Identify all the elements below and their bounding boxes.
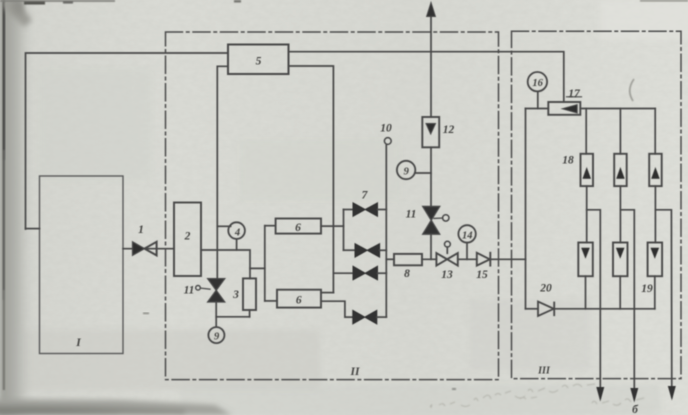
- svg-text:19: 19: [641, 283, 653, 295]
- svg-text:8: 8: [404, 268, 410, 280]
- svg-text:11: 11: [184, 285, 195, 297]
- svg-text:18: 18: [562, 155, 574, 167]
- svg-text:3: 3: [232, 289, 239, 301]
- svg-text:6: 6: [295, 222, 301, 234]
- svg-text:II: II: [350, 366, 360, 378]
- svg-text:9: 9: [214, 332, 220, 343]
- svg-text:III: III: [537, 366, 551, 377]
- svg-text:14: 14: [462, 230, 473, 241]
- svg-text:I: I: [75, 337, 81, 349]
- svg-text:2: 2: [184, 231, 191, 243]
- svg-text:5: 5: [256, 56, 262, 68]
- svg-text:1: 1: [138, 224, 144, 236]
- svg-text:4: 4: [234, 228, 240, 239]
- svg-text:20: 20: [539, 283, 552, 295]
- svg-text:16: 16: [532, 78, 543, 89]
- svg-text:6: 6: [296, 295, 302, 307]
- svg-text:13: 13: [441, 269, 453, 281]
- svg-text:10: 10: [380, 123, 392, 135]
- svg-text:12: 12: [443, 124, 455, 136]
- svg-text:9: 9: [404, 167, 410, 178]
- svg-text:15: 15: [476, 269, 488, 281]
- svg-text:17: 17: [568, 88, 581, 100]
- svg-text:11: 11: [406, 209, 417, 221]
